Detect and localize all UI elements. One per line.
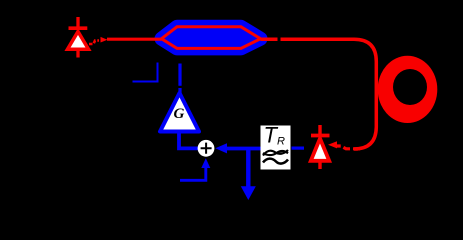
svg-text:G: G (174, 106, 185, 122)
svg-text:R: R (277, 136, 285, 148)
